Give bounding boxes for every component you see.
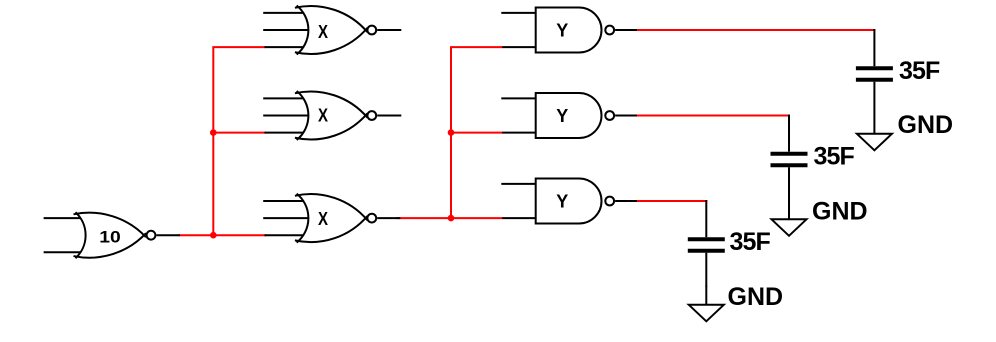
svg-text:X: X: [318, 106, 328, 126]
svg-text:35F: 35F: [899, 57, 940, 85]
svg-text:X: X: [318, 22, 328, 42]
svg-text:10: 10: [99, 229, 121, 247]
svg-text:X: X: [318, 209, 328, 229]
svg-text:GND: GND: [898, 111, 954, 139]
svg-text:Y: Y: [556, 106, 568, 126]
svg-text:GND: GND: [812, 198, 868, 226]
svg-text:35F: 35F: [730, 228, 771, 256]
svg-text:35F: 35F: [814, 143, 855, 171]
svg-text:Y: Y: [556, 21, 568, 41]
svg-text:GND: GND: [728, 283, 784, 311]
svg-text:Y: Y: [556, 192, 568, 212]
